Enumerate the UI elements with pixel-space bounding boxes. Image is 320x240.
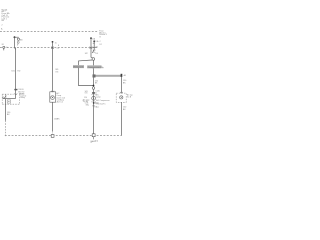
node fuse block tap 2 [52,41,54,43]
connector arcs at fuse block exit [51,47,54,49]
svg-text:Bd: Bd [2,20,4,22]
wire left feed [14,37,16,47]
svg-text:Camp: Camp [96,97,101,99]
wire below box right [93,68,95,74]
ground distribution dashed line [5,135,122,137]
junction dot branch return [93,85,95,87]
svg-text:Gnd: Gnd [95,141,98,143]
node fuse block tap 4 [93,40,95,42]
clutch coil circle [51,96,55,100]
svg-text:15: 15 [55,42,57,44]
svg-text:D2: D2 [96,47,98,49]
svg-text:342: 342 [85,53,88,55]
svg-text:Thermal Fu: Thermal Fu [96,103,105,105]
node B+ tap junction [14,36,16,38]
bus bar end terminal [121,74,123,77]
fuse block label [99,31,108,46]
bus bar gray [96,75,122,77]
connector arcs tap3 [90,47,93,49]
svg-text:Asm C2: Asm C2 [57,101,63,104]
fuse F1 [17,38,19,45]
node fuse block tap 3 [90,37,92,39]
svg-text:BKa: BKa [86,104,89,106]
wire below compressor [52,102,54,131]
connector C100 junction circle [92,58,95,61]
title text block top-left [1,8,11,30]
gray reference box right [87,65,101,68]
ground splice square S1 [51,135,54,138]
fuse block dashed box top edge [0,31,98,33]
wire stub to fuse [15,36,19,38]
connector arcs tap4 [93,47,95,48]
svg-text:OG: OG [55,71,59,73]
connector arcs into pressure switch box [120,92,123,93]
connector terminal on fuse block edge left [3,46,5,48]
svg-text:D2: D2 [100,44,102,46]
pressure switch dashed box [116,93,126,102]
wire from relay to ground [5,99,7,121]
splice block S101 dark [93,74,96,77]
in-line connector on left wire [15,89,18,90]
relay dashed box bottom-left [2,94,20,104]
svg-text:C2: C2 [57,48,59,50]
svg-text:B Aux: B Aux [95,105,100,108]
wire below box left [79,68,94,86]
wire main to compressor [93,78,95,134]
wire below pressure switch [121,102,123,135]
relay switch symbol [3,94,6,98]
wire branch left from circle [79,60,93,65]
wire main down from circle [93,60,95,65]
svg-text:B+: B+ [1,28,3,30]
svg-text:B1: B1 [2,44,4,46]
tick on wire [92,105,95,107]
wire right branch down [121,77,123,93]
compressor clutch coil [92,96,96,100]
node below coil [93,102,95,104]
relay terminal small box [7,100,10,103]
svg-text:M4: M4 [20,39,23,41]
wire center feed [52,42,54,92]
in-line connector at compressor [92,92,95,93]
wire tap3 down [91,38,93,58]
gray reference box left [73,65,84,68]
ground splice square S2 [92,134,95,137]
compressor body box [50,92,56,102]
connector circle C2 [92,87,95,90]
svg-text:Relay: Relay [20,97,25,99]
fuse block dashed box bottom edge [0,47,98,49]
pressure switch symbol [120,96,123,99]
svg-text:A/C Compressor: A/C Compressor [96,99,110,102]
svg-text:A4: A4 [124,74,126,77]
connector arcs into relay box [15,93,18,94]
svg-text:2: 2 [2,24,3,26]
svg-text:Compressor Rly: Compressor Rly [88,66,105,69]
connector arcs at box entry [52,91,54,92]
wire tap4 down [92,41,94,53]
ground stub [93,137,95,140]
pin ticks at clutch coil [91,95,95,102]
wire inside relay box [3,98,16,100]
